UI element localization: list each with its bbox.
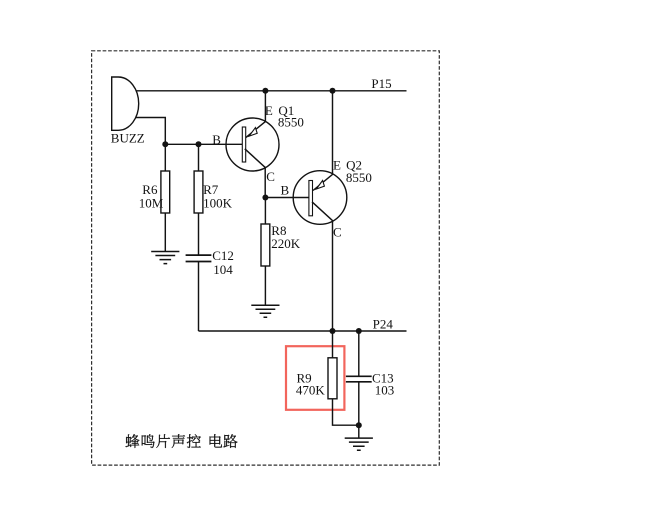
svg-text:C: C <box>333 224 342 239</box>
node: R9/C13 bottom junction <box>356 422 362 428</box>
resistor R9 <box>328 358 337 399</box>
wire: base net to Q1 <box>165 143 242 145</box>
buzzer BUZZ <box>112 77 139 130</box>
wire: Q2 emitter to P15 rail <box>313 91 333 191</box>
node: Q2 collector / R9 junction <box>330 328 336 334</box>
wire: R8 top lead <box>264 198 266 225</box>
wire: R7 top lead <box>198 144 200 171</box>
svg-text:C: C <box>266 169 275 184</box>
wire: R6 top lead <box>164 144 166 171</box>
svg-text:470K: 470K <box>296 383 326 398</box>
wire: C13 bottom lead <box>358 383 360 439</box>
node: C13 top junction <box>356 328 362 334</box>
resistor R8 <box>261 224 270 266</box>
svg-text:104: 104 <box>213 262 233 277</box>
wire: buzzer bottom lead <box>136 118 166 145</box>
svg-text:100K: 100K <box>203 196 233 211</box>
svg-text:8550: 8550 <box>278 114 304 129</box>
svg-text:10M: 10M <box>139 196 164 211</box>
wire: R9 top lead <box>332 331 334 358</box>
wire: Q1 emitter to P15 rail <box>246 91 266 138</box>
ground (C13) <box>345 438 373 450</box>
wire: Q1 collector <box>245 149 265 198</box>
ground (R8) <box>251 305 279 317</box>
svg-text:BUZZ: BUZZ <box>111 130 145 145</box>
svg-text:P24: P24 <box>373 317 394 332</box>
ground (R6) <box>151 252 179 264</box>
wire: C12 down to P24 rail <box>198 262 200 331</box>
capacitor C12 <box>186 255 212 261</box>
svg-text:B: B <box>212 132 221 147</box>
resistor R6 <box>161 171 170 213</box>
node: P15/Q1 emitter junction <box>262 88 268 94</box>
svg-text:B: B <box>281 183 290 198</box>
svg-text:E: E <box>333 157 341 172</box>
wire: R9 bottom lead <box>333 400 359 426</box>
Q1 emitter arrow <box>249 128 257 137</box>
svg-text:103: 103 <box>375 383 395 398</box>
wire: Q2 base <box>265 197 309 199</box>
node: R7 junction <box>196 141 202 147</box>
highlight box around R9 <box>286 346 344 410</box>
svg-text:P15: P15 <box>371 76 391 91</box>
wire: R6 bottom lead <box>164 213 166 252</box>
wire: R7 bottom lead to C12 <box>198 213 200 255</box>
node: Q1 collector / R8 / Q2 base junction <box>262 195 268 201</box>
wire: R8 bottom lead <box>264 266 266 305</box>
transistor Q2 <box>293 171 347 225</box>
wire: C13 top lead <box>358 331 360 376</box>
svg-text:220K: 220K <box>271 236 301 251</box>
svg-text:8550: 8550 <box>346 170 372 185</box>
node: P15/Q2 emitter junction <box>330 88 336 94</box>
resistor R7 <box>194 171 203 213</box>
node: buzzer/R6 junction <box>162 141 168 147</box>
capacitor C13 <box>346 376 372 382</box>
transistor Q1 <box>226 118 279 171</box>
Q2 emitter arrow <box>316 181 324 190</box>
caption 蜂鸣片声控电路 <box>126 434 238 448</box>
wire: P24 rail <box>199 330 407 332</box>
wire: buzzer top to P15 rail <box>136 90 407 92</box>
wire: Q2 collector to P24 rail <box>312 202 333 331</box>
svg-text:E: E <box>265 103 273 118</box>
